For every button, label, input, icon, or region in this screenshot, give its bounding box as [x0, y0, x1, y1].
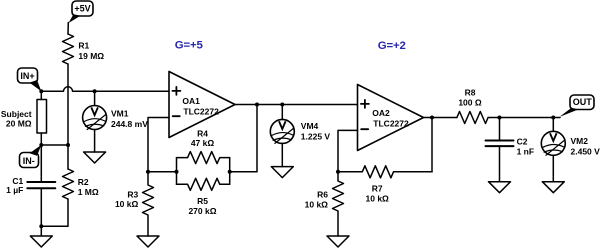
svg-text:OA1: OA1 — [182, 96, 200, 106]
OA2 minus symbol — [361, 128, 368, 130]
svg-text:244.8 mV: 244.8 mV — [111, 119, 148, 129]
svg-text:+5V: +5V — [74, 3, 90, 13]
svg-text:R2: R2 — [78, 177, 89, 187]
wire node to R4R5 left bar — [148, 171, 177, 173]
voltmeter VM4 — [270, 119, 294, 143]
wire R1 bottom to node B — [67, 64, 69, 145]
flag IN- — [20, 145, 42, 168]
node IN+ junction — [39, 89, 43, 93]
wire +5V to R1 — [67, 23, 69, 35]
svg-text:47 kΩ: 47 kΩ — [191, 138, 215, 148]
svg-text:10 kΩ: 10 kΩ — [115, 199, 139, 209]
svg-text:R4: R4 — [197, 129, 208, 139]
wire VM4 to ground — [281, 143, 283, 166]
ground G3 — [137, 236, 159, 247]
svg-text:2.450 V: 2.450 V — [571, 146, 600, 156]
voltmeter VM1 — [83, 106, 107, 130]
wire VM2 to ground — [552, 155, 554, 181]
svg-text:1 µF: 1 µF — [6, 185, 23, 195]
wire IN+ node down to Subject — [40, 91, 42, 99]
flag OUT — [560, 95, 595, 117]
svg-text:270 kΩ: 270 kΩ — [188, 206, 216, 216]
svg-text:Subject: Subject — [1, 109, 32, 119]
resistor R4 — [177, 152, 230, 164]
node OA1 output — [255, 103, 259, 107]
resistor R8 — [457, 112, 488, 124]
power flag +5V — [69, 1, 94, 23]
node C2 tap — [498, 116, 502, 120]
svg-text:1 MΩ: 1 MΩ — [78, 187, 99, 197]
OA1 plus symbol — [172, 87, 180, 95]
ground G1 — [30, 226, 52, 247]
wire VM1 to ground — [94, 130, 96, 153]
R4R5 left bar — [176, 158, 178, 185]
ground G6 — [489, 182, 511, 193]
wire R4R5 right to OA1 output (feedback) — [230, 105, 257, 172]
svg-text:G=+2: G=+2 — [378, 40, 406, 52]
resistor R6 — [333, 172, 344, 236]
R4R5 right bar — [229, 158, 231, 185]
svg-text:VM1: VM1 — [111, 109, 129, 119]
wire to VM4 — [281, 105, 283, 120]
node B — [66, 143, 70, 147]
node R4R5 right — [228, 170, 232, 174]
node OA2 output — [430, 116, 434, 120]
ground G4 — [271, 167, 293, 178]
node C1/R2 bottom — [39, 224, 43, 228]
svg-text:20 MΩ: 20 MΩ — [6, 119, 32, 129]
node R3/R4 — [146, 170, 150, 174]
label VM2 V glyph — [550, 133, 557, 141]
wire to VM2 — [552, 118, 554, 132]
svg-text:G=+5: G=+5 — [175, 40, 204, 52]
capacitor C1 — [27, 182, 55, 188]
resistor R5 — [177, 178, 230, 190]
OA1 minus symbol — [173, 115, 180, 117]
svg-text:R5: R5 — [197, 196, 208, 206]
svg-text:1 nF: 1 nF — [517, 147, 534, 157]
wire to C2 — [499, 118, 501, 141]
wire C1 to ground node — [40, 188, 42, 226]
OA2 plus symbol — [361, 100, 369, 108]
svg-text:OA2: OA2 — [372, 108, 390, 118]
capacitor C2 — [486, 141, 514, 147]
node R6/R7 — [336, 170, 340, 174]
wire OA1 -in down to R3 node — [148, 118, 169, 172]
main wire IN+ node to OA1 +in (hop over vertical) — [41, 87, 169, 91]
node VM2 tap — [551, 116, 555, 120]
wire node B to R2 — [67, 145, 69, 169]
svg-text:TLC2272: TLC2272 — [183, 106, 219, 116]
wire R8 to OUT — [488, 117, 560, 119]
resistor R3 — [143, 172, 154, 236]
svg-text:19 MΩ: 19 MΩ — [78, 51, 104, 61]
svg-text:10 kΩ: 10 kΩ — [305, 199, 329, 209]
svg-text:IN-: IN- — [23, 156, 35, 166]
op-amp OA2 — [358, 85, 424, 151]
wire OA2 out to R8 — [424, 117, 457, 119]
wire node A to C1 — [40, 145, 42, 182]
svg-text:100 Ω: 100 Ω — [458, 98, 482, 108]
svg-text:10 kΩ: 10 kΩ — [366, 194, 390, 204]
svg-text:VM2: VM2 — [571, 136, 589, 146]
label VM4 V glyph — [279, 121, 286, 129]
svg-text:R8: R8 — [465, 87, 476, 97]
svg-text:R6: R6 — [317, 190, 328, 200]
resistor R1 — [63, 34, 74, 64]
node A — [39, 143, 43, 147]
svg-text:OUT: OUT — [573, 97, 593, 107]
ground G7 — [542, 182, 564, 193]
svg-text:R3: R3 — [127, 190, 138, 200]
svg-text:R1: R1 — [78, 41, 89, 51]
node VM4 tap — [280, 103, 284, 107]
svg-text:TLC2272: TLC2272 — [373, 118, 409, 128]
svg-text:VM4: VM4 — [301, 121, 319, 131]
wire R7 to OA2 output (feedback) — [431, 118, 433, 172]
svg-text:1.225 V: 1.225 V — [301, 131, 331, 141]
node R4R5 left — [175, 170, 179, 174]
wire OA1 out to OA2 +in — [235, 104, 358, 106]
wire C2 to ground — [499, 146, 501, 182]
label VM1 V glyph — [91, 107, 98, 115]
wire node A to node B — [41, 144, 68, 146]
voltmeter VM2 — [541, 131, 565, 155]
svg-text:C2: C2 — [517, 137, 528, 147]
wire OA2 -in to R6/R7 node — [338, 130, 358, 171]
resistor R2 — [63, 169, 74, 199]
svg-text:IN+: IN+ — [20, 71, 34, 81]
wire R2 bottom to C1 bottom node — [41, 199, 68, 226]
svg-text:R7: R7 — [372, 183, 383, 193]
wire to VM1 — [94, 91, 96, 105]
ground G2 — [84, 152, 106, 163]
op-amp OA1 — [169, 72, 235, 138]
resistor R7 — [338, 166, 432, 178]
flag IN+ — [18, 68, 42, 91]
node VM1 tap — [93, 89, 97, 93]
ground G5 — [327, 236, 349, 247]
resistor Subject (box) — [37, 100, 47, 134]
wire Subject bottom to node A — [40, 133, 42, 145]
